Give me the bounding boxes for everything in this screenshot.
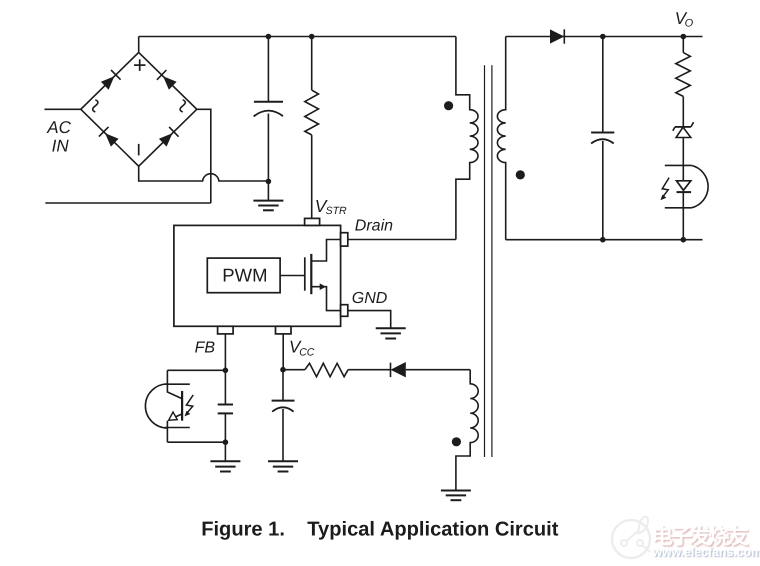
bridge rectifier diamond [81, 52, 197, 166]
diode VCC (points left) [391, 362, 406, 377]
transformer primary winding [456, 37, 478, 240]
resistor output zigzag [676, 53, 691, 97]
bridge diode D4 (bottom-right, points to AC node) [159, 127, 179, 147]
label VSTR [315, 196, 347, 217]
junction dot resistor top on rail [309, 34, 315, 40]
wire bridge bottom vertex to cap node (with hop) [139, 166, 269, 181]
mosfet Q1 gate bar [304, 257, 306, 290]
label AC IN [46, 118, 71, 155]
bridge diode D1 (left-top, points to +) [101, 70, 121, 90]
optocoupler phototransistor body arc [145, 384, 167, 428]
wire AC input line 2 [45, 202, 211, 204]
svg-text:PWM: PWM [222, 264, 267, 285]
pin FB [218, 326, 234, 334]
bridge diode D3 (bottom-left, points to AC node) [99, 127, 119, 147]
capacitor FB (bottom wire) [224, 413, 226, 442]
PWM block [207, 258, 280, 293]
wire bridge right vertex to AC line 2 [197, 109, 211, 203]
bridge minus mark [138, 144, 140, 156]
wire FB node to optocoupler collector [167, 369, 225, 371]
ground auxiliary winding [441, 491, 471, 501]
ground VCC [268, 461, 298, 471]
wire FB pin down [224, 334, 226, 370]
transformer auxiliary winding [456, 370, 478, 491]
junction dot FB node [223, 368, 229, 374]
wire bottom rail secondary [506, 239, 703, 241]
wire bridge top vertex to rail [138, 37, 140, 53]
svg-text:www.elecfans.com: www.elecfans.com [652, 545, 760, 559]
pin Drain [341, 233, 348, 246]
junction dot VCC node [280, 367, 286, 373]
junction dot output cap top [600, 34, 606, 40]
phase dot auxiliary [452, 437, 461, 446]
bridge diode D2 (right-top, points to +) [157, 70, 177, 90]
optocoupler phototransistor collector bar [165, 383, 190, 385]
optocoupler light bolt arrow (transistor side) [186, 395, 193, 413]
resistor startup Rstr zigzag [305, 90, 319, 135]
transformer core [485, 65, 492, 457]
junction dot FB lower node [223, 439, 229, 445]
junction dot output cap bottom [600, 237, 606, 243]
capacitor output (top wire) [602, 37, 604, 133]
wire top rail secondary [506, 36, 703, 38]
wire VCC node to resistor [283, 369, 305, 371]
capacitor input bulk (bottom wire) [267, 114, 269, 201]
svg-text:GND: GND [352, 290, 388, 307]
wire FB lower node to ground [224, 442, 226, 461]
wire AC input line 1 [45, 108, 81, 110]
transformer secondary winding [497, 37, 505, 240]
phase dot secondary [516, 170, 525, 179]
junction dot VO node [681, 34, 687, 40]
wire VCC pin down [282, 334, 284, 370]
capacitor output (bottom wire) [602, 141, 604, 240]
optocoupler phototransistor emitter bar [165, 427, 190, 429]
mosfet Q1 channel bar [310, 254, 312, 294]
diode secondary rectifier (points right) [550, 29, 564, 43]
zener diode (cathode up) [673, 122, 694, 137]
svg-text:FB: FB [195, 340, 216, 357]
optocoupler phototransistor collector lead [167, 370, 182, 398]
ground FB [210, 461, 240, 471]
capacitor FB (top wire) [224, 370, 226, 404]
wire LED to bottom rail [682, 192, 684, 240]
ground GND pin [376, 328, 406, 338]
mosfet Q1 source arrow [320, 283, 326, 290]
phase dot primary [444, 101, 453, 110]
resistor output (bottom wire) [682, 96, 684, 127]
wire drain pin to transformer primary [348, 239, 456, 241]
wire GND pin to ground [348, 311, 391, 329]
capacitor FB plates [218, 405, 233, 414]
mosfet Q1 drain lead [311, 240, 340, 262]
resistor VCC zigzag [305, 363, 348, 376]
svg-text:Drain: Drain [355, 217, 393, 234]
capacitor output plates [591, 133, 614, 144]
optocoupler LED cathode bar [677, 191, 692, 193]
capacitor VCC (top wire) [282, 370, 284, 401]
wire zener to LED [682, 138, 684, 181]
label VO [675, 9, 694, 30]
capacitor VCC plates [272, 401, 295, 412]
resistor startup Rstr (bottom wire to VSTR pin) [311, 135, 313, 219]
optocoupler LED triangle (points down) [677, 181, 691, 191]
bridge AC tilde left [93, 100, 98, 112]
wire resistor to diode [348, 369, 390, 371]
ground input cap [253, 201, 283, 211]
svg-text:AC: AC [46, 118, 71, 137]
pin VSTR [305, 218, 320, 225]
capacitor VCC (bottom wire) [282, 409, 284, 461]
wire top rail (bridge + to transformer primary) [139, 36, 456, 38]
svg-text:O: O [685, 18, 694, 30]
optocoupler phototransistor emitter lead with arrow [172, 414, 182, 419]
mosfet Q1 source lead [311, 287, 340, 311]
svg-text:IN: IN [52, 137, 70, 156]
optocoupler light bolt arrow (LED side) [662, 178, 669, 197]
resistor output (top wire) [682, 37, 684, 53]
resistor startup Rstr (top wire) [311, 37, 313, 91]
pin VCC [276, 326, 292, 334]
optocoupler phototransistor base bar [181, 391, 183, 421]
bridge plus mark [134, 59, 146, 71]
capacitor input bulk (top wire) [267, 37, 269, 102]
pin GND [341, 305, 348, 317]
label VCC [289, 338, 315, 359]
optocoupler LED body [665, 165, 708, 207]
svg-text:Figure 1. Typical Applicati: Figure 1. Typical Application Circuit [201, 519, 559, 541]
junction dot LED bottom rail [681, 237, 687, 243]
mosfet Q1 gate wire from PWM [280, 275, 305, 277]
svg-text:STR: STR [326, 205, 347, 217]
watermark elecfans logo [612, 517, 650, 558]
wire VCC node to aux winding (right segment) [406, 369, 470, 371]
junction dot cap top on rail [266, 34, 272, 40]
optocoupler phototransistor emitter vertical [166, 421, 168, 443]
bridge AC tilde right [180, 100, 185, 112]
capacitor input bulk plates [254, 102, 283, 117]
IC controller box U1 [174, 225, 341, 326]
svg-text:CC: CC [299, 347, 315, 359]
wire optocoupler emitter to FB lower node [167, 441, 225, 443]
junction dot cap bottom node [266, 179, 272, 185]
